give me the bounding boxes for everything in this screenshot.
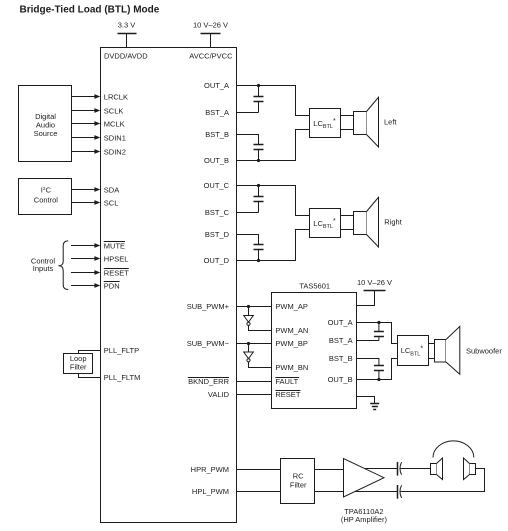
headphone band — [433, 441, 474, 458]
svg-text:Filter: Filter — [70, 363, 87, 372]
pin RESET (active low) — [104, 268, 129, 277]
svg-text:RC: RC — [293, 471, 304, 480]
pin PWM_BN — [275, 363, 308, 372]
wire SUB_PWM+ to PWM_AP — [237, 306, 272, 308]
bootstrap capacitor A (top) — [254, 86, 264, 113]
svg-text:Left: Left — [384, 118, 397, 127]
wire BST_A — [237, 112, 259, 114]
svg-text:BST_A: BST_A — [329, 336, 353, 345]
svg-text:TAS5601: TAS5601 — [299, 281, 330, 290]
node sub OUT_B junction — [377, 378, 380, 381]
wire SDIN2 — [72, 149, 101, 154]
svg-text:BST_D: BST_D — [205, 230, 230, 239]
digital audio source box — [19, 86, 72, 162]
wire OUT_A — [237, 86, 310, 116]
pin FAULT (active low) — [275, 377, 299, 386]
speaker Left — [354, 97, 379, 147]
speaker Subwoofer — [435, 326, 460, 374]
svg-text:(HP Amplifier): (HP Amplifier) — [341, 515, 388, 524]
node OUT_A junction — [257, 84, 260, 87]
svg-text:RESET: RESET — [275, 390, 300, 399]
pin SCL — [104, 198, 119, 207]
label Right — [384, 218, 402, 227]
svg-text:Filter: Filter — [290, 480, 307, 489]
pin SDIN2 — [104, 147, 126, 156]
pin BST_B (TAS5601) — [329, 354, 353, 363]
svg-text:BST_B: BST_B — [205, 130, 229, 139]
svg-text:PWM_BN: PWM_BN — [275, 363, 308, 372]
pin MCLK — [104, 119, 125, 128]
headphone left earpiece — [431, 458, 443, 480]
svg-text:DVDD/AVDD: DVDD/AVDD — [104, 51, 148, 60]
pin PWM_AN — [275, 326, 308, 335]
svg-text:HPSEL: HPSEL — [104, 254, 129, 263]
LC filter LC_BTL (subwoofer) — [398, 336, 429, 366]
TAS5601 label — [299, 281, 330, 290]
svg-text:SCL: SCL — [104, 198, 119, 207]
headphone right earpiece — [464, 458, 476, 480]
power 3.3V rail symbol — [118, 34, 137, 48]
pin PLL_FLTP — [104, 346, 139, 355]
power 10V-26V rail symbol (TAS5601) — [357, 291, 386, 306]
label TPA6110A2 — [341, 507, 388, 524]
svg-text:BST_C: BST_C — [205, 208, 230, 217]
pin HPSEL — [104, 254, 129, 263]
pin SCLK — [104, 106, 124, 115]
node OUT_B junction — [257, 159, 260, 162]
svg-text:Subwoofer: Subwoofer — [466, 346, 502, 355]
svg-text:PDN: PDN — [104, 281, 120, 290]
bootstrap capacitor D — [254, 245, 264, 261]
title — [20, 5, 160, 16]
svg-text:RESET: RESET — [104, 268, 129, 277]
wire RC filter to amp (top) — [315, 469, 344, 471]
svg-text:Inputs: Inputs — [33, 264, 54, 273]
pin OUT_B (TAS5601) — [328, 375, 353, 384]
svg-text:PWM_BP: PWM_BP — [275, 339, 308, 348]
svg-text:10 V–26 V: 10 V–26 V — [357, 278, 392, 287]
pin RESET (active low, TAS5601) — [275, 390, 300, 399]
wire OUT_B — [237, 130, 310, 161]
wire PDN — [71, 283, 100, 288]
wire BST_C — [237, 212, 259, 214]
pin PWM_AP — [275, 302, 308, 311]
control inputs label — [31, 256, 56, 273]
svg-text:Right: Right — [384, 218, 402, 227]
svg-text:MUTE: MUTE — [104, 241, 125, 250]
wire PLL_FLTM to loop filter — [79, 374, 101, 378]
speaker Right — [354, 197, 379, 247]
svg-text:Bridge-Tied Load (BTL) Mode: Bridge-Tied Load (BTL) Mode — [20, 5, 160, 16]
wire OUT_C — [237, 186, 310, 216]
svg-text:SCLK: SCLK — [104, 106, 124, 115]
wire SDA — [72, 187, 101, 192]
pin SDA — [104, 185, 119, 194]
wire HPR_PWM to RC filter — [237, 469, 281, 471]
svg-text:OUT_D: OUT_D — [204, 256, 230, 265]
pin HPL_PWM — [192, 487, 229, 496]
pin PLL_FLTM — [104, 373, 141, 382]
wire SCLK — [72, 108, 101, 113]
wire OUT_B (TAS5601) — [357, 359, 398, 380]
wire BKND_ERR to FAULT — [237, 381, 272, 383]
coupling capacitor (top) — [398, 462, 402, 476]
wire PLL_FLTP to loop filter — [79, 351, 101, 354]
wire SCL — [72, 200, 101, 205]
power 10V-26V label (main) — [193, 21, 228, 30]
svg-text:MCLK: MCLK — [104, 119, 125, 128]
svg-text:LRCLK: LRCLK — [104, 92, 128, 101]
wire LC to left speaker (top) — [341, 115, 354, 117]
pin BKND_ERR (active low) — [188, 377, 230, 386]
pin OUT_A — [204, 81, 229, 90]
inverter U3 (PWM_BN) — [244, 344, 272, 368]
wire HPL_PWM to RC filter — [237, 491, 281, 493]
wire SUB_PWM- to PWM_BP — [237, 343, 272, 345]
pin VALID — [208, 390, 230, 399]
svg-text:3.3 V: 3.3 V — [118, 21, 136, 30]
svg-text:Control: Control — [34, 195, 59, 204]
wire BST_A (TAS5601) — [357, 340, 379, 342]
main IC U1 box — [101, 48, 237, 523]
wire RESET — [71, 270, 100, 275]
svg-text:SUB_PWM+: SUB_PWM+ — [187, 302, 230, 311]
node SUB_PWM- junction — [247, 342, 250, 345]
svg-text:Audio: Audio — [36, 121, 55, 130]
svg-text:PLL_FLTP: PLL_FLTP — [104, 346, 139, 355]
wire amp output top — [365, 468, 398, 470]
svg-text:SDIN1: SDIN1 — [104, 134, 126, 143]
svg-text:OUT_B: OUT_B — [204, 156, 229, 165]
wire LC to subwoofer (top) — [429, 343, 435, 345]
svg-text:OUT_A: OUT_A — [328, 318, 353, 327]
svg-text:PLL_FLTM: PLL_FLTM — [104, 373, 141, 382]
bootstrap capacitor C (top) — [254, 186, 264, 213]
node OUT_C junction — [257, 184, 260, 187]
pin OUT_A (TAS5601) — [328, 318, 353, 327]
wire LRCLK — [72, 94, 101, 99]
wire amp output bottom — [355, 491, 397, 493]
wire cap to return (bottom) — [401, 469, 485, 492]
wire VALID to RESET — [237, 394, 272, 396]
label Left — [384, 118, 397, 127]
bootstrap capacitor B — [254, 145, 264, 161]
loop filter box — [64, 354, 93, 374]
power 10V-26V label (TAS5601) — [357, 278, 392, 287]
wire LC to right speaker (bottom) — [341, 229, 354, 231]
svg-text:OUT_B: OUT_B — [328, 375, 353, 384]
pin OUT_D — [204, 256, 230, 265]
I2C control box — [19, 179, 72, 215]
svg-text:OUT_A: OUT_A — [204, 81, 229, 90]
pin BST_B — [205, 130, 229, 139]
wire RC filter to amp (bottom) — [315, 491, 344, 493]
pin PWM_BP — [275, 339, 308, 348]
wire BST_B — [237, 135, 259, 145]
svg-text:SDA: SDA — [104, 185, 119, 194]
LC filter LC_BTL (left channel) — [310, 109, 341, 138]
pin BST_D — [205, 230, 230, 239]
svg-text:OUT_C: OUT_C — [204, 181, 230, 190]
node SUB_PWM+ junction — [247, 305, 250, 308]
svg-text:Loop: Loop — [70, 354, 87, 363]
pin BST_C — [205, 208, 230, 217]
wire OUT_D — [237, 230, 310, 261]
svg-text:BST_A: BST_A — [205, 108, 229, 117]
wire MUTE — [71, 243, 100, 248]
wire SDIN1 — [72, 135, 101, 140]
label Subwoofer — [466, 346, 502, 355]
pin LRCLK — [104, 92, 128, 101]
bootstrap capacitor (sub B) — [374, 366, 384, 380]
RC filter box — [281, 459, 315, 504]
op-amp TPA6110A2 — [344, 459, 385, 498]
svg-text:HPR_PWM: HPR_PWM — [191, 465, 229, 474]
svg-text:SDIN2: SDIN2 — [104, 147, 126, 156]
svg-text:PWM_AN: PWM_AN — [275, 326, 308, 335]
svg-text:BST_B: BST_B — [329, 354, 353, 363]
node sub OUT_A junction — [377, 321, 380, 324]
ground (TAS5601) — [357, 397, 380, 410]
svg-text:PWM_AP: PWM_AP — [275, 302, 308, 311]
pin SUB_PWM- — [187, 339, 230, 348]
svg-text:BKND_ERR: BKND_ERR — [188, 377, 229, 386]
power 3.3V label — [118, 21, 136, 30]
pin OUT_B — [204, 156, 229, 165]
pin AVCC/PVCC — [189, 51, 233, 60]
svg-text:FAULT: FAULT — [275, 377, 298, 386]
wire BST_D — [237, 235, 259, 245]
wire OUT_A (TAS5601) — [357, 323, 398, 344]
wire LC to subwoofer (bottom) — [429, 358, 435, 360]
pin BST_A — [205, 108, 229, 117]
coupling capacitor (bottom) — [398, 485, 402, 499]
svg-text:I2C: I2C — [41, 185, 52, 194]
pin DVDD/AVDD — [104, 51, 148, 60]
control inputs brace — [58, 241, 68, 290]
svg-text:SUB_PWM−: SUB_PWM− — [187, 339, 230, 348]
svg-text:VALID: VALID — [208, 390, 230, 399]
svg-text:AVCC/PVCC: AVCC/PVCC — [189, 51, 233, 60]
amplifier TAS5601 box — [272, 293, 357, 409]
wire MCLK — [72, 121, 101, 126]
wire LC to right speaker (top) — [341, 215, 354, 217]
wire BST_B (TAS5601) — [357, 359, 379, 366]
pin HPR_PWM — [191, 465, 229, 474]
svg-text:10 V–26 V: 10 V–26 V — [193, 21, 228, 30]
svg-text:Source: Source — [34, 129, 58, 138]
pin PDN (active low) — [104, 281, 120, 290]
inverter U2 (PWM_AN) — [244, 307, 272, 331]
bootstrap capacitor (sub A) — [374, 323, 384, 341]
wire LC to left speaker (bottom) — [341, 129, 354, 131]
pin BST_A (TAS5601) — [329, 336, 353, 345]
pin SDIN1 — [104, 134, 126, 143]
pin SUB_PWM+ — [187, 302, 230, 311]
power 10V-26V rail symbol (main) — [201, 34, 221, 48]
pin MUTE (active low) — [104, 241, 125, 250]
LC filter LC_BTL (right channel) — [310, 209, 341, 238]
svg-text:HPL_PWM: HPL_PWM — [192, 487, 229, 496]
node OUT_D junction — [257, 259, 260, 262]
wire cap to left earpiece — [401, 468, 431, 470]
pin OUT_C — [204, 181, 230, 190]
wire HPSEL — [71, 256, 100, 261]
